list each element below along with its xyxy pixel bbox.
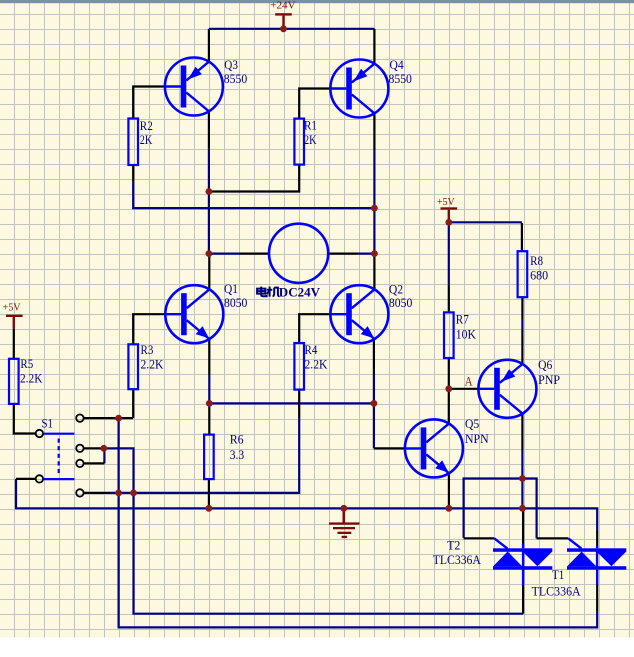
wire: R2 bottom to Q4 collector column bbox=[133, 181, 374, 208]
wire: S1 row4 to R4 bottom bbox=[110, 418, 299, 493]
pin: R2 bottom stub bbox=[132, 165, 134, 181]
junction: emitter bus left bbox=[206, 400, 213, 407]
wire: R6 top stub bbox=[208, 403, 210, 407]
junction: gate bus junction bbox=[519, 475, 526, 482]
svg-text:R8: R8 bbox=[530, 253, 543, 268]
svg-text:R7: R7 bbox=[456, 312, 469, 327]
wire: S1 row2 link to row4 column bbox=[104, 448, 134, 493]
pin: R6 bottom to ground rail bbox=[208, 479, 210, 508]
pin: T2 bottom (MT1) bbox=[522, 570, 524, 586]
power symbol +24V bbox=[275, 13, 292, 29]
svg-text:R3: R3 bbox=[141, 342, 154, 357]
pin: S1 row2 lead bbox=[84, 447, 104, 449]
wire: Q4 collector column down to motor-right node bbox=[373, 150, 375, 254]
junction: motor left node bbox=[206, 250, 213, 257]
wire: ground rail bbox=[16, 479, 597, 531]
svg-text:2.2K: 2.2K bbox=[20, 371, 43, 386]
junction: node A junction bbox=[445, 385, 452, 392]
svg-text:+5V: +5V bbox=[3, 301, 21, 313]
resistor R5 body bbox=[9, 359, 19, 404]
pin: R5 bottom to S1 bbox=[14, 404, 36, 434]
svg-text:NPN: NPN bbox=[465, 431, 489, 446]
wire: Q2 emitter down to Q5 base corner bbox=[373, 375, 375, 449]
wire: S1 row3 up-link bbox=[103, 448, 105, 463]
wire: R8 bottom to Q6 emitter bbox=[521, 319, 523, 330]
pin: S1 row1 lead + R3 bottom bbox=[84, 417, 133, 419]
pin: Q2 base + R4 top lead bbox=[299, 314, 330, 343]
pin: T1 bottom (MT1) bbox=[596, 570, 598, 585]
pin: R6 top stub bbox=[208, 407, 210, 435]
pin: T1 gate lead bbox=[537, 537, 569, 539]
svg-text:DC24V: DC24V bbox=[279, 284, 321, 299]
svg-text:T1: T1 bbox=[552, 567, 564, 582]
pin: R5 top lead bbox=[13, 328, 15, 359]
pin: Q2 collector up to motor-right node bbox=[373, 254, 375, 290]
wire: R7 top from +5V node bbox=[448, 222, 450, 284]
pin: T2 top (MT2) bbox=[522, 508, 524, 543]
pin: motor left lead bbox=[240, 253, 270, 255]
junction: +24V rail bbox=[280, 25, 287, 32]
pin: Q2 emitter down bbox=[373, 339, 375, 375]
svg-text:680: 680 bbox=[530, 268, 548, 283]
wire: Q3 collector node down to motor-left node bbox=[208, 149, 210, 254]
pin: Q5 base lead bbox=[374, 447, 405, 449]
resistor R3 body bbox=[128, 344, 138, 389]
pin: R7 bottom to node A bbox=[448, 358, 450, 389]
junction: Q3 collector node bbox=[206, 188, 213, 195]
junction: S1 row1 junction bbox=[115, 415, 122, 422]
pin: Q1 collector up to motor-left node bbox=[208, 254, 210, 290]
svg-text:2.2K: 2.2K bbox=[141, 356, 164, 371]
pin: S1 lower-left contact to ground rail bbox=[16, 478, 35, 480]
resistor R7 body bbox=[444, 312, 454, 358]
junction: R6 ground junction bbox=[206, 505, 213, 512]
svg-text:Q5: Q5 bbox=[465, 416, 479, 431]
svg-text:PNP: PNP bbox=[538, 372, 560, 387]
pin: R7 top stub bbox=[448, 284, 450, 312]
svg-text:Q4: Q4 bbox=[390, 57, 405, 72]
junction: T2 rail junction bbox=[519, 505, 526, 512]
svg-text:2K: 2K bbox=[304, 132, 317, 147]
svg-text:10K: 10K bbox=[456, 326, 477, 341]
pin: T2 gate lead bbox=[464, 537, 495, 539]
junction: S1 row4 junction 2 bbox=[130, 490, 137, 497]
svg-text:R6: R6 bbox=[230, 432, 244, 447]
svg-text:R4: R4 bbox=[305, 342, 318, 357]
pin: Q4 base + R1 top lead bbox=[299, 89, 330, 119]
pin: R1 bottom lead to Q3 collector node bbox=[209, 165, 299, 192]
svg-text:T2: T2 bbox=[447, 537, 460, 552]
junction: S1 row4 junction 1 bbox=[115, 490, 122, 497]
svg-text:8050: 8050 bbox=[224, 295, 247, 310]
pin: Q5 collector up to node A bbox=[448, 389, 450, 424]
junction: ground junction bbox=[340, 505, 347, 512]
transistor Q4 (PNP) body bbox=[330, 60, 388, 118]
switch S1 bbox=[36, 414, 84, 496]
pin: Q4 collector down bbox=[373, 113, 375, 150]
pin: Q1 base + R3 top lead bbox=[133, 314, 165, 344]
pin: Q3 base + R2 top lead bbox=[133, 87, 165, 119]
pin: R8 bottom bbox=[521, 297, 523, 319]
junction: S1 row2 junction bbox=[100, 445, 107, 452]
pin: Q3 collector down bbox=[208, 111, 210, 149]
transistor Q5 (NPN) body bbox=[405, 419, 463, 477]
svg-text:Q1: Q1 bbox=[224, 281, 238, 296]
pin: Q4 emitter to +24V rail bbox=[373, 29, 375, 64]
pin: R4 bottom lead bbox=[298, 390, 300, 419]
wire: triac gate bus (y=478.5) bbox=[464, 479, 537, 539]
wire: motor-right node stub bbox=[358, 253, 375, 255]
svg-text:A: A bbox=[465, 375, 473, 389]
pin: S1 row4 lead bbox=[84, 492, 110, 494]
svg-text:TLC336A: TLC336A bbox=[433, 552, 482, 567]
pin: Q3 emitter to +24V rail bbox=[208, 29, 210, 62]
pin: Q6 collector down bbox=[521, 414, 523, 450]
svg-text:Q3: Q3 bbox=[224, 57, 238, 72]
transistor Q3 (PNP) body bbox=[165, 58, 223, 116]
resistor R4 body bbox=[294, 343, 304, 390]
junction: +5V node bbox=[445, 219, 452, 226]
svg-text:S1: S1 bbox=[42, 416, 54, 431]
resistor R1 body bbox=[294, 119, 304, 165]
junction: motor right node bbox=[371, 250, 378, 257]
svg-text:Q6: Q6 bbox=[538, 357, 553, 372]
power symbol +5V (left) bbox=[6, 315, 23, 329]
wire: left vertical to bottom rail A bbox=[119, 493, 598, 628]
resistor R2 body bbox=[128, 119, 138, 166]
svg-text:2K: 2K bbox=[140, 132, 153, 147]
svg-text:R1: R1 bbox=[304, 117, 317, 132]
svg-text:+24V: +24V bbox=[270, 0, 296, 12]
svg-text:8050: 8050 bbox=[389, 295, 412, 310]
svg-text:+5V: +5V bbox=[437, 196, 455, 208]
triac T1 body bbox=[567, 538, 626, 569]
wire: left vertical to bottom rail B bbox=[134, 493, 524, 614]
pin: motor right lead bbox=[328, 253, 357, 255]
wire: Q6 collector down to gate bus bbox=[521, 450, 523, 508]
power symbol +5V (right) bbox=[441, 207, 458, 222]
pin: S1 row3 lead bbox=[84, 462, 104, 464]
wire: motor-left node stub bbox=[209, 253, 240, 255]
pin: Q6 emitter up bbox=[521, 330, 523, 364]
junction: Q5 emitter junction bbox=[446, 505, 453, 512]
svg-text:R5: R5 bbox=[20, 356, 33, 371]
svg-text:8550: 8550 bbox=[389, 71, 412, 86]
label 电机DC24V (motor) bbox=[257, 284, 321, 299]
svg-text:8550: 8550 bbox=[224, 71, 247, 86]
motor M (DC24V) body bbox=[269, 224, 328, 283]
pin: R8 top stub bbox=[521, 223, 523, 251]
svg-text:3.3: 3.3 bbox=[230, 447, 245, 462]
resistor R6 body bbox=[204, 435, 214, 480]
pin: Q5 emitter to ground rail bbox=[448, 473, 450, 508]
transistor Q1 (NPN) body bbox=[165, 285, 223, 343]
svg-text:2.2K: 2.2K bbox=[305, 356, 328, 371]
wire: S1 row1 vertical bbox=[117, 418, 119, 493]
transistor Q2 (NPN) body bbox=[330, 285, 388, 343]
triac T2 body bbox=[493, 538, 552, 569]
svg-text:R2: R2 bbox=[140, 118, 153, 133]
ground symbol bbox=[329, 508, 360, 538]
wire: +24V top rail bbox=[209, 28, 375, 30]
junction: R2/Q4 node bbox=[371, 205, 378, 212]
pin: Q6 base to node A bbox=[449, 388, 478, 390]
wire: +5V node to R8 top bbox=[449, 221, 522, 223]
pin: Q1 emitter down bbox=[208, 339, 210, 375]
transistor Q6 (PNP) body bbox=[478, 360, 536, 418]
resistor R8 body bbox=[518, 251, 528, 297]
wire: emitter bus Q1-Q2 (y=403) bbox=[209, 375, 374, 403]
svg-text:TLC336A: TLC336A bbox=[532, 583, 582, 598]
junction: emitter bus right bbox=[371, 400, 378, 407]
pin: T1 top (MT2) bbox=[596, 531, 598, 546]
